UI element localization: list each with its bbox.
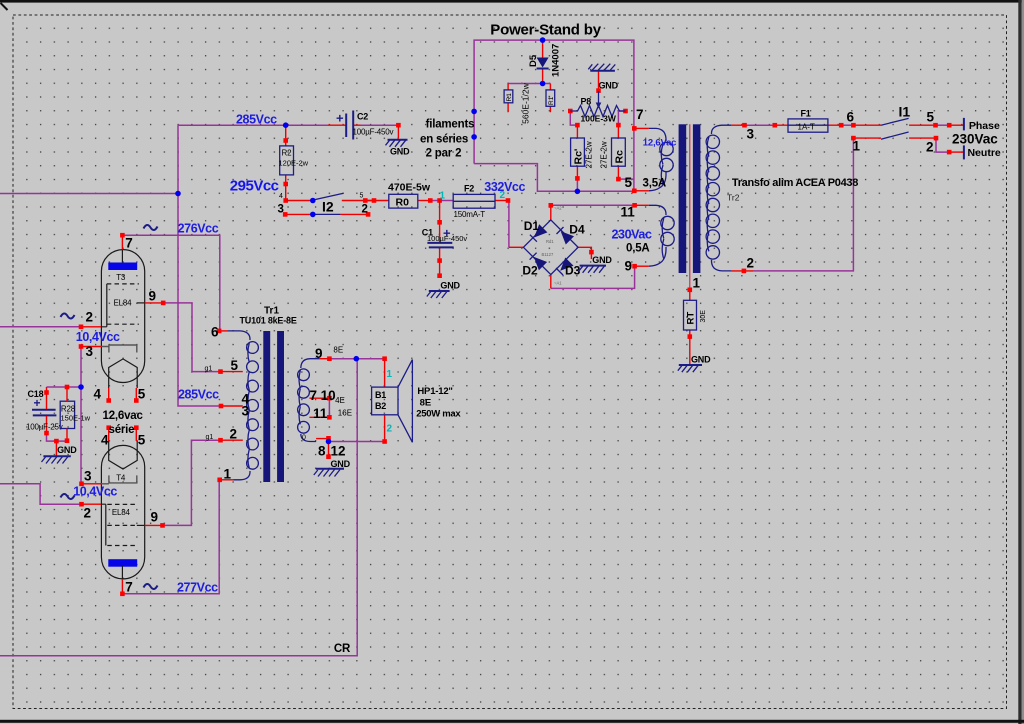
svg-text:7: 7 — [125, 236, 133, 251]
svg-text:6: 6 — [847, 110, 855, 125]
svg-text:30E: 30E — [700, 310, 707, 323]
P8 wiper arrow — [598, 91, 600, 104]
node R0-C1-F2 junction — [428, 198, 433, 203]
wire C18 bottom link to R28 — [47, 433, 68, 441]
wire red Tr1 pin2 — [221, 439, 243, 441]
diode D1 — [534, 224, 547, 237]
node bridge gnd — [589, 250, 594, 255]
wire red Tr1 pin7/10 — [309, 397, 329, 399]
wire T3 pin9 to Tr1 pin5 — [163, 303, 220, 372]
svg-text:C2: C2 — [357, 112, 368, 122]
potentiometer P8 zigzag — [570, 106, 625, 117]
wire 285Vcc vertical rail down to Tr1 pins 4/3 — [178, 125, 221, 406]
node F2 out — [506, 198, 511, 203]
svg-text:11: 11 — [313, 406, 328, 421]
svg-text:GND: GND — [331, 459, 351, 469]
T3 filament pentagon — [109, 359, 138, 388]
svg-text:12: 12 — [331, 444, 346, 459]
wire red Tr2 pin3 stub — [731, 124, 745, 126]
wire red C2 leads — [328, 125, 398, 138]
wire red bridge top lead — [550, 205, 552, 220]
resistor RT — [684, 300, 697, 330]
svg-text:RT: RT — [686, 312, 697, 325]
svg-text:D4: D4 — [569, 223, 585, 237]
wire I2 to R0 link — [365, 200, 374, 202]
wire Tr1 pin9 to speaker plus — [331, 358, 385, 360]
svg-text:5: 5 — [360, 193, 364, 200]
svg-text:EL84: EL84 — [112, 508, 131, 517]
wire red T4 pin3 — [81, 483, 101, 485]
wire red I1 row2 — [853, 137, 936, 139]
svg-text:10,4Vcc: 10,4Vcc — [73, 484, 117, 498]
wire Tr2 pin3 to F1 — [745, 124, 775, 126]
svg-text:1: 1 — [387, 369, 393, 380]
svg-text:GND: GND — [691, 355, 711, 365]
svg-text:10: 10 — [321, 388, 336, 403]
svg-text:B1: B1 — [375, 390, 386, 400]
wire red T4 pin9 — [145, 524, 165, 526]
svg-text:230Vac: 230Vac — [952, 132, 998, 147]
svg-text:250W max: 250W max — [416, 409, 461, 420]
wire R0 to F2 link — [430, 200, 453, 202]
wire red R1 leads — [507, 84, 509, 113]
svg-text:R2: R2 — [282, 149, 293, 158]
wire D5 node horizontal — [508, 83, 550, 85]
svg-text:9: 9 — [151, 510, 159, 525]
svg-text:B2: B2 — [375, 401, 386, 411]
svg-text:Rc': Rc' — [573, 149, 585, 165]
node C2 gnd — [396, 123, 401, 128]
wire red T4 pin4 — [108, 428, 110, 441]
T4 filament pentagon — [109, 441, 138, 470]
wire Rc bottom link — [618, 178, 634, 180]
wire Tr1 sec taps 10-11 link — [328, 398, 330, 417]
resistor Rc — [612, 138, 626, 166]
svg-text:D3: D3 — [565, 264, 581, 278]
T4 grid left rail — [101, 504, 106, 545]
node I2 row1 contacts — [363, 198, 368, 203]
tube T3 envelope — [101, 250, 144, 383]
svg-text:8: 8 — [318, 444, 326, 459]
wire left-edge feed to 285Vcc node — [0, 193, 178, 195]
switch I1 blade row2 — [881, 132, 909, 139]
svg-text:5: 5 — [138, 433, 146, 448]
svg-text:3: 3 — [747, 127, 755, 142]
Tr2 12.6V winding — [649, 128, 666, 141]
AC squiggle T3 top — [144, 225, 158, 230]
node bridge top — [549, 203, 554, 208]
svg-text:5: 5 — [138, 387, 146, 402]
svg-text:F2: F2 — [464, 184, 474, 194]
svg-text:9: 9 — [315, 346, 323, 361]
svg-text:11: 11 — [621, 205, 636, 220]
Tr2 230V winding — [649, 205, 666, 215]
wire P8 right to Rc top — [618, 111, 625, 125]
svg-text:100E-3W: 100E-3W — [581, 114, 617, 124]
resistor Rc' — [571, 138, 585, 166]
svg-text:3: 3 — [278, 204, 284, 216]
terminal Phase — [963, 118, 965, 130]
wire I1 pin2 to Neutre — [936, 138, 949, 152]
wire red Tr2 pin5 stub — [634, 190, 649, 192]
wire red T3 pin5 — [135, 388, 137, 401]
wire red R28 leads — [66, 387, 68, 441]
T3 pin9 lead inside — [137, 302, 145, 304]
svg-text:332Vcc: 332Vcc — [484, 180, 525, 194]
wire F1 to I1 pin6 — [841, 124, 853, 126]
svg-text:Tr2: Tr2 — [727, 193, 740, 203]
T3 grid dashed bottom — [107, 323, 139, 325]
wire I1 pin1 down to Tr2 pin2 — [753, 138, 853, 271]
diode D5 — [537, 58, 549, 68]
transformer Tr1 core — [263, 331, 270, 482]
svg-text:1: 1 — [224, 467, 232, 482]
svg-text:2: 2 — [362, 204, 368, 216]
svg-text:0: 0 — [302, 435, 306, 442]
svg-text:Rc: Rc — [614, 150, 626, 164]
svg-text:2: 2 — [387, 424, 393, 435]
svg-text:27E-2w: 27E-2w — [600, 141, 609, 168]
wire red Tr1 pin9 — [319, 358, 331, 360]
wire red Tr2 pin9 stub — [635, 265, 649, 267]
T4 pin7 stem — [121, 565, 123, 579]
frame corner tick — [1, 3, 8, 10]
svg-text:T3: T3 — [116, 273, 126, 282]
wire Tr1 pin 8/12 to speaker minus — [329, 441, 385, 443]
wire C2 right plate to ground stub — [361, 124, 399, 126]
svg-text:F1: F1 — [801, 109, 811, 119]
speaker cone — [398, 360, 412, 443]
T4 cathode — [101, 475, 137, 483]
svg-text:série: série — [109, 424, 135, 436]
wire CR line from speaker node — [0, 359, 357, 656]
svg-text:+: + — [34, 396, 41, 410]
T3 grid dashed top — [107, 283, 139, 285]
svg-text:~A2: ~A2 — [554, 206, 562, 211]
svg-text:560E-1/2w: 560E-1/2w — [521, 82, 531, 123]
diode D2 — [534, 257, 547, 270]
AC squiggle T4 pin2 — [61, 494, 75, 499]
wire red T3 pin7 — [121, 235, 123, 249]
svg-text:~A1: ~A1 — [554, 281, 562, 286]
wire red Tr1 pin4/3 — [221, 405, 243, 407]
node I2 row2 contacts — [283, 212, 288, 217]
svg-text:8E: 8E — [420, 398, 432, 409]
svg-text:27E-2w: 27E-2w — [585, 141, 594, 168]
svg-text:I2: I2 — [322, 199, 334, 215]
svg-text:I1: I1 — [899, 104, 911, 120]
wire red Tr1 pin11 — [309, 416, 329, 418]
Tr1 primary winding — [228, 331, 250, 340]
svg-text:100µF-450v: 100µF-450v — [427, 234, 467, 243]
svg-text:100µF-450v: 100µF-450v — [353, 128, 394, 137]
wire red T4 pin5 — [135, 428, 137, 441]
wire red bridge right to gnd — [578, 247, 591, 259]
transformer Tr2 core — [679, 124, 687, 273]
wire red Tr2 pin2 stub — [731, 270, 753, 272]
svg-text:3,5A: 3,5A — [643, 178, 667, 190]
svg-text:filaments: filaments — [426, 119, 475, 131]
bridge diamond — [523, 220, 578, 275]
wire red F1 leads — [775, 124, 841, 126]
frame top edge — [0, 0, 1024, 3]
svg-text:150mA-T: 150mA-T — [454, 210, 486, 219]
wire Tr2 center-tap pin1 — [689, 124, 691, 289]
svg-text:2: 2 — [230, 427, 238, 442]
svg-text:GND: GND — [390, 147, 410, 157]
resistor R1 — [504, 90, 513, 103]
svg-text:D2: D2 — [522, 264, 538, 278]
resistor R1' — [546, 90, 555, 106]
wire red Tr1 pin0 — [316, 439, 328, 457]
node C1 pins — [437, 220, 442, 225]
svg-text:Power-Stand by: Power-Stand by — [490, 21, 601, 38]
svg-text:8E: 8E — [333, 346, 343, 355]
wire left-edge to T4 pin2 — [0, 484, 81, 504]
Tr1 secondary winding — [301, 359, 319, 368]
svg-text:Transfo alim ACEA P0438: Transfo alim ACEA P0438 — [732, 177, 858, 189]
svg-text:7: 7 — [310, 388, 318, 403]
svg-text:9: 9 — [149, 289, 157, 304]
diode D4 — [561, 231, 574, 244]
svg-text:285Vcc: 285Vcc — [178, 388, 219, 402]
T3 cathode — [101, 345, 137, 353]
frame bottom edge — [0, 720, 1024, 723]
svg-text:R1': R1' — [548, 95, 555, 105]
wire red F2 to bridge left corner — [509, 246, 524, 248]
wire C18 top link — [47, 386, 82, 388]
wire red RT leads — [689, 290, 691, 364]
wire Rc' bottom drop — [576, 178, 578, 191]
junction dots blue — [175, 191, 181, 197]
T4 anode bar — [108, 559, 137, 567]
svg-text:12,6vac: 12,6vac — [103, 410, 144, 422]
wire red T4 pin7 — [121, 579, 123, 594]
wire red R2 leads — [285, 125, 287, 200]
svg-text:GND: GND — [440, 281, 460, 291]
svg-text:1: 1 — [853, 139, 861, 154]
wire red C1 column — [439, 201, 441, 278]
svg-text:GND: GND — [599, 81, 619, 91]
svg-text:Phase: Phase — [969, 120, 1000, 132]
tube T4 envelope — [101, 445, 144, 579]
svg-text:GND: GND — [57, 445, 77, 455]
wire red Tr1 pin5 — [221, 371, 243, 373]
wire F2 out down to bridge — [508, 201, 510, 248]
svg-text:2 par 2: 2 par 2 — [426, 148, 462, 160]
speaker terminals red — [384, 359, 386, 442]
wire red D5 leads — [542, 40, 544, 83]
wire red Rc leads — [617, 125, 619, 179]
svg-text:4: 4 — [94, 387, 102, 402]
svg-text:T4: T4 — [116, 474, 126, 483]
capacitor C18 — [32, 410, 56, 416]
resistor R28 — [60, 401, 74, 428]
ground C2 — [388, 139, 408, 141]
switch I1 blade row1 — [881, 118, 909, 125]
wire red Neutre lead — [949, 151, 964, 153]
svg-text:4E: 4E — [335, 396, 345, 405]
svg-text:3: 3 — [84, 469, 92, 484]
Tr2 primary winding — [711, 125, 731, 134]
svg-text:TU101 8kE-8E: TU101 8kE-8E — [240, 316, 297, 326]
wire bridge top to Tr2 pin11 — [551, 204, 635, 206]
svg-text:P8: P8 — [581, 97, 592, 107]
svg-text:150E-1w: 150E-1w — [61, 414, 91, 423]
svg-text:4: 4 — [101, 433, 109, 448]
wire P8 left to Rc' top — [570, 111, 577, 125]
svg-text:1: 1 — [693, 276, 701, 291]
speaker B1 B2 box — [372, 387, 398, 415]
T3 pin7 stem — [121, 250, 123, 263]
wire red bridge bottom lead — [550, 275, 552, 289]
wire I1 pin5 to Phase — [936, 124, 950, 126]
svg-text:277Vcc: 277Vcc — [177, 581, 218, 595]
svg-text:2: 2 — [926, 140, 934, 155]
wire standby loop — [474, 40, 634, 191]
AC squiggle T3 pin2 — [61, 313, 75, 318]
svg-text:g1: g1 — [206, 434, 214, 441]
wire red T3 pin4 — [108, 388, 110, 401]
wire T3 pin7 to Tr1 pin6 (276Vcc) — [123, 235, 220, 331]
svg-text:3: 3 — [242, 404, 250, 419]
svg-text:2: 2 — [84, 506, 92, 521]
svg-text:Neutre: Neutre — [968, 147, 1001, 159]
wire red I1 row1 — [853, 124, 935, 126]
wire red Phase lead — [949, 124, 964, 126]
svg-text:1N4007: 1N4007 — [551, 44, 562, 77]
resistor R0 — [389, 194, 418, 208]
switch I2 contact row2 — [314, 213, 340, 215]
wire red I2 row1 — [286, 200, 389, 202]
svg-text:120E-2w: 120E-2w — [279, 159, 309, 168]
AC squiggle T4 pin7 — [144, 584, 158, 589]
svg-text:CR: CR — [334, 643, 351, 655]
ground P8 inverted — [590, 70, 615, 72]
wire red T3 pin3 — [81, 346, 101, 348]
wire red Tr1 pin6 — [219, 330, 228, 332]
svg-text:230Vac: 230Vac — [612, 228, 652, 242]
frame right edge — [1018, 0, 1021, 724]
diode D3 — [560, 258, 573, 271]
svg-text:R0: R0 — [396, 197, 410, 209]
svg-text:100µF-25v: 100µF-25v — [26, 423, 63, 432]
wire red C18 gnd — [55, 441, 57, 455]
svg-text:7: 7 — [125, 580, 133, 595]
wire T4 pin9 to Tr1 pin2 — [165, 440, 221, 525]
wire red Tr2 pin7 stub — [634, 127, 649, 129]
node R2 pins — [283, 138, 288, 143]
svg-text:5: 5 — [231, 358, 239, 373]
fuse F2 — [453, 194, 495, 208]
wire red Tr1 pin1 — [220, 479, 233, 481]
wire red Rc' leads — [576, 125, 578, 178]
svg-text:GND: GND — [592, 255, 612, 265]
capacitor C2 — [346, 111, 353, 140]
svg-text:16E: 16E — [338, 408, 352, 417]
svg-text:1A-T: 1A-T — [798, 123, 815, 132]
svg-text:6: 6 — [211, 325, 219, 340]
wire bridge bottom to Tr2 pin9 — [551, 266, 635, 288]
wire left-edge to T3 pin2 — [0, 326, 81, 328]
svg-text:12,6Vac: 12,6Vac — [643, 138, 676, 149]
svg-text:276Vcc: 276Vcc — [178, 222, 219, 236]
svg-text:295Vcc: 295Vcc — [230, 177, 279, 194]
svg-text:2: 2 — [747, 256, 755, 271]
resistor R2 — [280, 146, 294, 175]
svg-text:g1: g1 — [205, 366, 213, 373]
svg-text:R28: R28 — [61, 405, 76, 414]
svg-text:470E-5w: 470E-5w — [388, 182, 431, 194]
fuse F1 — [788, 119, 828, 132]
svg-text:EL84: EL84 — [114, 299, 133, 308]
svg-text:R1: R1 — [506, 93, 513, 102]
wire red R1p leads — [549, 84, 551, 113]
svg-text:10,4Vcc: 10,4Vcc — [76, 330, 120, 344]
svg-text:0,5A: 0,5A — [626, 243, 650, 255]
svg-text:9: 9 — [625, 259, 633, 274]
svg-text:+: + — [336, 111, 344, 126]
svg-text:285Vcc: 285Vcc — [236, 113, 277, 127]
T3 grid left rail — [101, 284, 107, 327]
wire red T3 pin9 — [145, 302, 164, 304]
svg-text:5: 5 — [927, 110, 935, 125]
wire red T4 pin2 — [81, 503, 101, 505]
wire red T3 pin2 — [81, 326, 102, 328]
T3 anode bar — [108, 263, 137, 271]
wire red R0 right lead — [418, 200, 431, 202]
capacitor C1 — [427, 243, 453, 248]
svg-text:Rd1: Rd1 — [546, 239, 554, 244]
svg-text:D5: D5 — [528, 54, 539, 67]
svg-text:4: 4 — [279, 193, 283, 200]
T4 grid dashed lines — [107, 503, 137, 505]
T4 pin9 lead inside — [137, 524, 145, 526]
svg-text:1: 1 — [440, 191, 446, 202]
node P8 terminals — [568, 109, 573, 114]
terminal Neutre — [963, 145, 965, 159]
svg-text:D1: D1 — [524, 219, 540, 233]
svg-text:B1127: B1127 — [542, 252, 554, 257]
svg-text:5: 5 — [625, 175, 633, 190]
wire 285Vcc top rail to C2 — [178, 124, 328, 126]
switch I2 blade row1 — [314, 193, 343, 200]
svg-text:en séries: en séries — [420, 134, 468, 146]
wire red F2 right lead — [495, 200, 509, 202]
wire T3 pin3 column down to T4 pin3 — [80, 348, 82, 484]
svg-text:3: 3 — [86, 344, 94, 359]
wire red C18 leads — [46, 387, 48, 433]
wire T4 pin7 to Tr1 pin1 (277Vcc) — [123, 481, 219, 594]
wire red Tr2 pin11 stub — [635, 204, 649, 206]
svg-text:2: 2 — [86, 310, 94, 325]
svg-text:7: 7 — [636, 107, 644, 122]
wire red I2 row2 — [285, 213, 368, 215]
svg-text:HP1-12": HP1-12" — [417, 386, 452, 397]
wire red P8 gnd lead — [598, 71, 600, 91]
